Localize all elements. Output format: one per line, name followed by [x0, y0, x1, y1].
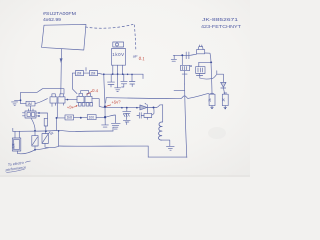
svg-text:+5v: +5v [67, 104, 74, 110]
svg-text:4x62.99: 4x62.99 [43, 17, 61, 22]
svg-text:2M: 2M [91, 72, 96, 76]
svg-text:JK-8852671: JK-8852671 [202, 17, 239, 22]
svg-text:#SU2TA00FM: #SU2TA00FM [43, 11, 76, 16]
svg-text:2k: 2k [208, 98, 212, 102]
svg-text:1k0V: 1k0V [112, 52, 124, 57]
svg-text:100: 100 [89, 115, 95, 119]
svg-text:22k: 22k [11, 143, 15, 149]
svg-text:1M: 1M [27, 102, 32, 106]
svg-text:423-FETCHNYT: 423-FETCHNYT [201, 24, 241, 29]
svg-text:2M: 2M [77, 72, 82, 76]
svg-text:1k: 1k [221, 98, 225, 102]
svg-text:uF: uF [133, 54, 138, 59]
svg-text:1k8: 1k8 [67, 115, 72, 119]
svg-text:+5v?: +5v? [111, 99, 121, 105]
